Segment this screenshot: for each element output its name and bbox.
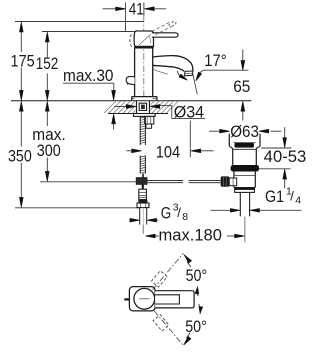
rod housing	[229, 178, 236, 186]
40-53 reference lines	[261, 147, 291, 149]
plan: upper 50deg arc arrow + leader	[184, 255, 192, 264]
plan: center mark	[139, 298, 149, 300]
valve fitting	[139, 189, 147, 199]
svg-text:17°: 17°	[204, 52, 226, 70]
104 arrows	[126, 150, 131, 152]
plan: upper phantom diagonal	[153, 253, 184, 290]
17deg left pointer	[177, 71, 181, 78]
supply nut	[137, 203, 149, 208]
max300 bottom extension line	[40, 181, 137, 183]
17deg right pointer	[198, 70, 203, 75]
svg-text:8: 8	[182, 211, 188, 223]
104 right extension line	[189, 121, 191, 158]
svg-text:Ø63: Ø63	[230, 123, 259, 141]
drain lower body	[234, 171, 255, 187]
svg-text:max.30: max.30	[63, 67, 114, 85]
horizontal pop-up rod	[147, 180, 221, 182]
aerator outlet	[184, 71, 193, 76]
svg-text:65: 65	[233, 78, 250, 96]
pop-up rod clamp	[136, 178, 147, 185]
max.30 lower arrow	[113, 124, 115, 130]
41 arrows	[103, 8, 117, 10]
G1 1/4 arrows and leader	[211, 209, 231, 211]
G3/8 supply pipe	[140, 208, 147, 225]
pop-up plug dark top	[235, 143, 254, 147]
threaded stud lower segment	[140, 156, 145, 174]
faucet center line	[143, 16, 145, 98]
svg-text:4: 4	[295, 195, 301, 207]
dia34 arrows at shank	[114, 106, 126, 108]
svg-text:max.180: max.180	[159, 227, 222, 245]
deck hatching	[104, 101, 178, 113]
threaded stud upper segment	[140, 116, 145, 145]
plan: rod stub	[124, 298, 129, 300]
drain flange cup	[229, 134, 260, 147]
side nut blocks	[145, 116, 154, 124]
svg-text:175: 175	[11, 52, 35, 70]
152/max300 dimension line x=47.3	[46, 42, 48, 59]
svg-text:/: /	[177, 205, 181, 220]
deck bottom line	[108, 113, 168, 115]
drain upper body	[233, 148, 257, 165]
plan: lower 50deg arc arrow + leader	[184, 336, 191, 345]
175 extension line	[15, 21, 144, 23]
spout-body fillet	[153, 69, 168, 74]
rubber seal O-ring	[231, 165, 259, 171]
deck top surface line	[11, 100, 251, 102]
svg-text:104: 104	[156, 143, 180, 161]
handle internal lines	[139, 34, 151, 45]
pop-up knob on body left	[126, 76, 134, 84]
svg-text:41: 41	[129, 1, 144, 19]
max180 arrows	[155, 235, 159, 237]
svg-text:350: 350	[8, 148, 32, 166]
base flange	[132, 97, 157, 101]
plan: swing arrow up	[195, 287, 199, 294]
faucet body	[135, 48, 153, 96]
plan: lower phantom lever rect	[153, 315, 169, 331]
phantom handle swing arc (dashed)	[130, 34, 132, 47]
350 bottom extension line	[15, 207, 139, 209]
G3/8 arrows	[130, 219, 132, 221]
152 extension line	[42, 31, 134, 33]
rod knob (knurled)	[221, 176, 230, 186]
175/350 dimension line x=21.3	[20, 32, 22, 53]
17deg flow line	[193, 73, 198, 94]
drain center extension line	[244, 216, 246, 242]
svg-text:50°: 50°	[185, 318, 207, 336]
plan: swing arrow down	[199, 307, 203, 314]
65 bottom arrow	[242, 111, 244, 121]
shank between deck lines	[137, 101, 150, 114]
spout	[153, 56, 193, 71]
svg-text:40-53: 40-53	[264, 148, 307, 166]
handle body	[134, 31, 153, 46]
plan: body square	[129, 287, 155, 311]
white mask behind shank	[135, 101, 151, 113]
washer plate	[134, 114, 156, 117]
tailpipe G1 1/4	[240, 192, 249, 216]
40-53 dimension arrows	[284, 127, 286, 138]
svg-text:G: G	[161, 204, 171, 222]
dia34 leader jog + underline	[171, 106, 173, 119]
pipe center extension	[142, 225, 144, 234]
plan: lever outer outline	[155, 291, 194, 308]
drain lock nut	[235, 188, 255, 193]
65 top arrow	[242, 50, 244, 62]
svg-text:300: 300	[37, 142, 61, 160]
phantom raised lever (dashed)	[152, 22, 170, 31]
svg-text:50°: 50°	[186, 267, 208, 285]
plan: upper phantom lever rect	[152, 271, 168, 287]
plan: lower phantom diagonal	[154, 311, 184, 346]
max.30 leader underline	[63, 82, 114, 84]
plan: body circle	[134, 288, 155, 309]
svg-text:/: /	[290, 189, 294, 204]
lever rod	[152, 33, 178, 37]
17deg underline	[203, 69, 249, 71]
link to valve fitting	[142, 184, 144, 189]
41 extension lines	[125, 3, 127, 32]
svg-text:G1: G1	[265, 188, 284, 206]
dia63 arrows	[209, 130, 220, 132]
handle bottom dark band	[134, 46, 153, 48]
plan: spout inner outline	[155, 295, 179, 304]
